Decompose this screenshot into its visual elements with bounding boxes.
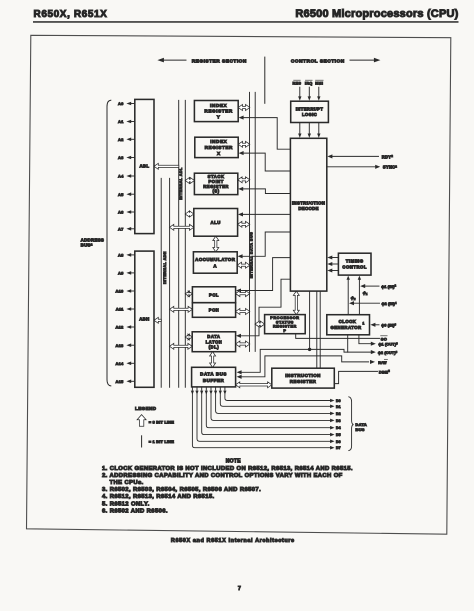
svg-text:5. R6512 ONLY.: 5. R6512 ONLY. — [102, 501, 150, 507]
svg-text:(DL): (DL) — [209, 344, 220, 349]
svg-text:A14: A14 — [116, 361, 125, 366]
svg-text:REGISTER: REGISTER — [273, 325, 297, 329]
control wire to index register X — [243, 153, 291, 171]
bus connector index register Y — [238, 105, 250, 111]
data bus line D4 — [205, 387, 207, 390]
bus connector processor status register — [255, 321, 265, 327]
connector ADH bus to PCH — [170, 306, 193, 312]
svg-text:INDEX: INDEX — [210, 139, 227, 144]
svg-text:D5: D5 — [336, 433, 341, 437]
svg-text:= 8 BIT LINE: = 8 BIT LINE — [149, 420, 174, 425]
RDY wire and label — [332, 155, 379, 157]
svg-text:RDY2: RDY2 — [382, 154, 393, 159]
wire instruction decode bottom to junction — [309, 291, 311, 349]
wire RES into interrupt logic — [299, 87, 301, 96]
svg-text:A15: A15 — [116, 379, 125, 384]
svg-text:R650X, R651X: R650X, R651X — [34, 9, 108, 20]
PCL register — [192, 287, 235, 303]
phi2 vertical clock line — [347, 279, 349, 314]
legend 8 bit line symbol — [137, 415, 146, 427]
connector ADL bus to ALU — [185, 211, 194, 217]
svg-text:A8: A8 — [118, 253, 124, 258]
svg-text:REGISTER: REGISTER — [290, 379, 317, 384]
address line A3 — [131, 157, 135, 159]
bus connector stack register — [238, 177, 250, 183]
data bus line D0 — [224, 387, 226, 390]
ABH register box — [135, 251, 154, 387]
svg-text:INTERNAL ADH: INTERNAL ADH — [163, 251, 167, 284]
address line A14 — [131, 362, 135, 364]
svg-text:ϕ1 (OUT)3: ϕ1 (OUT)3 — [378, 341, 398, 346]
data bus brace — [349, 397, 354, 451]
svg-text:DECODE: DECODE — [298, 206, 318, 211]
bus connector PCL — [236, 291, 250, 297]
data bus line D7 — [191, 387, 193, 390]
svg-text:ALU: ALU — [210, 220, 220, 225]
svg-text:CONTROL: CONTROL — [342, 265, 367, 270]
interrupt logic — [291, 101, 329, 122]
data bus line D3 — [210, 387, 212, 390]
control section arrow — [350, 59, 375, 61]
svg-text:D0: D0 — [336, 399, 341, 403]
svg-text:D2: D2 — [336, 412, 341, 416]
svg-text:INSTRUCTION: INSTRUCTION — [292, 201, 325, 206]
internal ADH bus bar — [160, 178, 162, 387]
register section arrow — [162, 59, 186, 61]
address line A4 — [131, 175, 135, 177]
svg-text:D4: D4 — [336, 426, 341, 430]
address line A15 — [131, 380, 135, 382]
svg-text:= 1 BIT LINE: = 1 BIT LINE — [149, 439, 174, 444]
svg-text:A12: A12 — [116, 325, 125, 330]
svg-text:D6: D6 — [336, 440, 341, 444]
section divider line — [264, 57, 266, 103]
wire NMI into interrupt logic — [318, 87, 320, 96]
svg-text:4. R6512, R6513, R6514 AND R65: 4. R6512, R6513, R6514 AND R6515. — [102, 494, 215, 500]
svg-text:A0: A0 — [118, 101, 124, 106]
svg-text:INTERNAL DATA BUS: INTERNAL DATA BUS — [250, 232, 254, 279]
svg-text:BUS2: BUS2 — [81, 242, 93, 247]
svg-text:ϕ2 (OUT)3: ϕ2 (OUT)3 — [378, 350, 398, 355]
phi1 OUT wire and label — [359, 335, 372, 344]
legend 1 bit line symbol — [141, 436, 143, 447]
PCH register — [192, 303, 235, 318]
wires instruction decode to instruction register — [316, 291, 318, 368]
address line A2 — [131, 138, 135, 140]
bus connector accumulator — [237, 262, 250, 268]
phi2 feed wire from data bus buffer — [241, 349, 348, 372]
svg-text:STATUS: STATUS — [276, 320, 294, 324]
svg-text:X: X — [217, 151, 221, 156]
address line A11 — [131, 308, 135, 310]
address line A9 — [131, 272, 135, 274]
svg-text:BUFFER: BUFFER — [203, 378, 225, 383]
svg-text:1: 1 — [363, 321, 365, 325]
svg-text:1. CLOCK GENERATOR IS NOT INCL: 1. CLOCK GENERATOR IS NOT INCLUDED ON R6… — [102, 466, 353, 472]
svg-text:A11: A11 — [116, 307, 124, 312]
connector ADL bus to stack register — [185, 178, 194, 184]
svg-text:3. R6502, R6503, R6504, R6505,: 3. R6502, R6503, R6504, R6505, R6506 AND… — [102, 487, 261, 493]
svg-text:6. R6502 AND R6506.: 6. R6502 AND R6506. — [102, 509, 168, 515]
connector data latch to data bus buffer — [210, 352, 216, 368]
address line A10 — [131, 290, 135, 292]
address line A12 — [131, 326, 135, 328]
svg-text:P: P — [283, 329, 286, 333]
control wire to PCL — [240, 258, 291, 291]
instruction decode — [290, 138, 326, 291]
svg-text:PCL: PCL — [209, 292, 219, 297]
data bus line D2 — [215, 387, 217, 390]
svg-text:LOGIC: LOGIC — [302, 112, 317, 117]
diagram border frame — [27, 35, 451, 534]
svg-text:CONTROL SECTION: CONTROL SECTION — [291, 58, 345, 64]
address line A0 — [131, 103, 135, 105]
accumulator A — [193, 252, 237, 273]
internal ADL bus bar — [178, 100, 180, 387]
svg-text:THE CPUs.: THE CPUs. — [110, 480, 144, 486]
control wire to ALU — [242, 213, 291, 215]
svg-text:NOTE: NOTE — [226, 459, 241, 465]
bus connector PCH — [236, 309, 250, 315]
bus connector data latch — [236, 341, 250, 347]
svg-text:A1: A1 — [118, 119, 124, 124]
R/W wire and label — [241, 356, 369, 377]
address line A1 — [131, 121, 135, 123]
data bus line D1 — [219, 387, 221, 390]
address line A13 — [131, 344, 135, 346]
svg-text:ϕ1: ϕ1 — [363, 290, 368, 296]
data bus line D5 — [201, 387, 203, 390]
svg-text:(S): (S) — [212, 189, 219, 194]
svg-text:ϕ0 (IN)3: ϕ0 (IN)3 — [381, 322, 396, 327]
svg-text:A: A — [213, 263, 217, 268]
svg-text:D1: D1 — [336, 405, 341, 409]
svg-text:R6500 Microprocessors (CPU): R6500 Microprocessors (CPU) — [295, 8, 458, 20]
index register X — [195, 137, 238, 157]
svg-text:D7: D7 — [336, 446, 341, 450]
svg-text:REGISTER: REGISTER — [204, 109, 232, 114]
connector ALU to accumulator — [213, 236, 219, 252]
svg-text:REGISTER: REGISTER — [205, 145, 233, 150]
svg-text:GENERATOR: GENERATOR — [330, 325, 362, 330]
SO wire and label — [296, 334, 380, 339]
svg-text:ϕ1 (IN)2: ϕ1 (IN)2 — [381, 284, 396, 289]
bus connector ALU — [238, 221, 250, 227]
svg-text:SYNC2: SYNC2 — [383, 164, 397, 169]
svg-text:RES: RES — [292, 82, 301, 86]
svg-text:ϕ2 (IN)4: ϕ2 (IN)4 — [382, 301, 397, 306]
phi0 IN wire and label — [375, 324, 380, 326]
junction dot — [308, 348, 311, 351]
svg-text:7: 7 — [238, 586, 241, 592]
control wire to accumulator — [242, 232, 291, 256]
connector ADL bus to PCL — [185, 291, 192, 297]
wires interrupt logic to instruction decode — [299, 123, 301, 134]
processor status register P — [265, 315, 306, 334]
svg-text:A9: A9 — [118, 271, 124, 276]
instruction register — [272, 368, 335, 388]
svg-text:Y: Y — [217, 115, 221, 120]
address line A6 — [131, 211, 135, 213]
connector ADH bus to data latch — [170, 343, 193, 349]
stack point register S — [194, 173, 237, 194]
address line A5 — [131, 193, 135, 195]
clock generator — [327, 315, 370, 335]
connector ADL bus to data latch — [185, 334, 192, 340]
connector instruction decode to processor status register — [293, 291, 299, 315]
svg-text:A7: A7 — [118, 226, 124, 231]
svg-text:R/W: R/W — [378, 360, 387, 365]
phi1 IN wire and label — [364, 285, 379, 287]
svg-text:A2: A2 — [118, 137, 124, 142]
svg-text:IRQ: IRQ — [305, 82, 313, 86]
svg-text:R650X and R651X Internal Archi: R650X and R651X Internal Architecture — [171, 538, 295, 544]
internal data bus bar — [249, 92, 251, 351]
control wire to data latch — [240, 279, 291, 336]
svg-text:ABH: ABH — [139, 316, 149, 321]
phi2 IN wire and label — [353, 302, 379, 304]
timing control — [338, 253, 371, 275]
connector ADH bus to ABH — [154, 317, 161, 323]
svg-text:LEGEND: LEGEND — [135, 406, 157, 411]
svg-text:A13: A13 — [116, 343, 125, 348]
data latch DL — [192, 332, 235, 352]
svg-text:INSTRUCTION: INSTRUCTION — [285, 373, 321, 378]
data bus line D6 — [196, 387, 198, 390]
ALU — [194, 209, 238, 237]
svg-text:A3: A3 — [118, 155, 124, 160]
svg-text:INTERRUPT: INTERRUPT — [296, 106, 324, 111]
svg-text:INDEX: INDEX — [210, 103, 227, 108]
svg-text:A6: A6 — [118, 210, 124, 215]
svg-text:DATA BUS: DATA BUS — [200, 372, 227, 377]
SYNC wire and label — [327, 166, 375, 168]
bus connector index register X — [238, 141, 250, 147]
svg-text:CLOCK: CLOCK — [339, 319, 357, 324]
connector ADL bus to ABL — [154, 163, 179, 169]
svg-text:ϕ2: ϕ2 — [351, 295, 356, 301]
control wire to index register Y — [243, 118, 291, 150]
ABL register box — [135, 99, 154, 233]
svg-text:ABL: ABL — [140, 163, 150, 168]
phi2 OUT wire — [348, 335, 372, 352]
svg-text:BUS: BUS — [355, 427, 364, 432]
svg-text:INTERNAL ADL: INTERNAL ADL — [179, 167, 183, 200]
connector data bus buffer to instruction register — [236, 382, 272, 388]
svg-text:PROCESSOR: PROCESSOR — [270, 316, 299, 320]
connector ADH bus to ALU — [170, 224, 194, 230]
phi1 vertical clock line — [358, 279, 360, 314]
wire IRQ into interrupt logic — [308, 87, 310, 96]
svg-text:D3: D3 — [336, 419, 341, 423]
data bus buffer — [192, 367, 236, 387]
svg-text:A10: A10 — [116, 289, 125, 294]
svg-text:ACCUMULATOR: ACCUMULATOR — [195, 257, 236, 262]
svg-text:DBE5: DBE5 — [379, 369, 390, 374]
svg-text:A5: A5 — [118, 192, 124, 197]
control wire to stack point register — [242, 189, 290, 194]
address bus bracket — [107, 100, 111, 386]
svg-text:A4: A4 — [118, 174, 124, 179]
svg-text:PCH: PCH — [209, 308, 220, 313]
address line A8 — [131, 254, 135, 256]
svg-text:REGISTER SECTION: REGISTER SECTION — [192, 58, 247, 64]
header rule — [33, 21, 459, 23]
DBE wire and label — [334, 371, 377, 383]
index register Y — [194, 101, 238, 122]
svg-text:NMI: NMI — [315, 82, 323, 86]
svg-text:TIMING: TIMING — [346, 259, 364, 264]
address line A7 — [131, 228, 135, 230]
wires timing control to instruction decode — [331, 257, 338, 259]
svg-text:2. ADDRESSING CAPABILITY AND C: 2. ADDRESSING CAPABILITY AND CONTROL OPT… — [102, 473, 343, 479]
